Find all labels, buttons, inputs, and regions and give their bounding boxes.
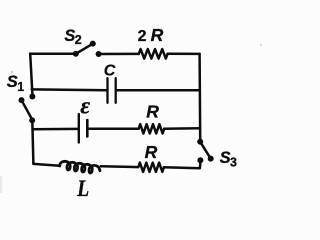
svg-text:S: S	[64, 27, 75, 45]
battery emf source: long plate	[78, 114, 80, 142]
svg-text:1: 1	[17, 80, 24, 94]
capacitor C plates	[108, 78, 116, 103]
node S3 pivot on right rail	[197, 139, 203, 145]
wire row1 middle (S2 to 2R)	[99, 53, 139, 56]
svg-text:R: R	[146, 102, 159, 122]
svg-text:R: R	[151, 25, 164, 45]
node upper contact of S1	[29, 94, 35, 100]
wire left rail upper segment	[30, 54, 32, 95]
label R row3	[146, 102, 159, 122]
svg-text:S: S	[220, 149, 231, 167]
resistor R row4 zigzag	[138, 163, 164, 172]
wire row1 right (2R to top-right corner)	[168, 53, 200, 56]
label S3	[220, 149, 237, 169]
label S2	[64, 27, 81, 47]
label R row4	[145, 142, 158, 162]
switch S1 arm with tip node	[19, 97, 33, 120]
wire row4 right (R to S3 contact)	[164, 162, 201, 168]
resistor R row3 zigzag	[139, 124, 165, 133]
node S2 left contact	[73, 51, 79, 57]
label 2R	[138, 25, 164, 45]
label S1	[7, 73, 24, 94]
svg-text:L: L	[76, 176, 89, 202]
svg-text:R: R	[145, 142, 158, 162]
inductor L coil	[60, 161, 100, 173]
svg-text:S: S	[7, 73, 18, 91]
svg-text:2: 2	[138, 28, 147, 45]
node S2 right contact	[96, 51, 102, 57]
svg-text:2: 2	[75, 33, 82, 47]
resistor 2R zigzag	[139, 49, 168, 59]
battery emf source: short plate	[86, 120, 89, 136]
node S3 lower contact	[197, 157, 203, 163]
wire left rail lower segment	[32, 120, 33, 163]
label L	[76, 176, 89, 202]
svg-text:3: 3	[230, 155, 237, 169]
wire row1 left (top-left corner to S2)	[30, 54, 76, 55]
switch S3 arm with tip node	[200, 142, 214, 162]
wire row4 middle (inductor to R)	[101, 165, 139, 168]
switch S2 arm with tip node	[76, 41, 96, 54]
wire row4 left corner to inductor	[33, 163, 59, 166]
wire row3 left (rail to battery)	[33, 128, 78, 131]
svg-text:ε: ε	[80, 94, 90, 120]
wire row3 middle (battery to R)	[88, 128, 138, 131]
wire row2 left (rail to capacitor)	[32, 88, 107, 91]
wire row2 right (capacitor to rail)	[117, 89, 200, 92]
label C	[104, 63, 116, 80]
wire row3 right (R to rail)	[164, 127, 200, 130]
label emf	[80, 94, 90, 120]
wire right rail	[198, 54, 201, 140]
node lower contact of S1	[29, 117, 35, 123]
svg-text:C: C	[104, 63, 116, 80]
